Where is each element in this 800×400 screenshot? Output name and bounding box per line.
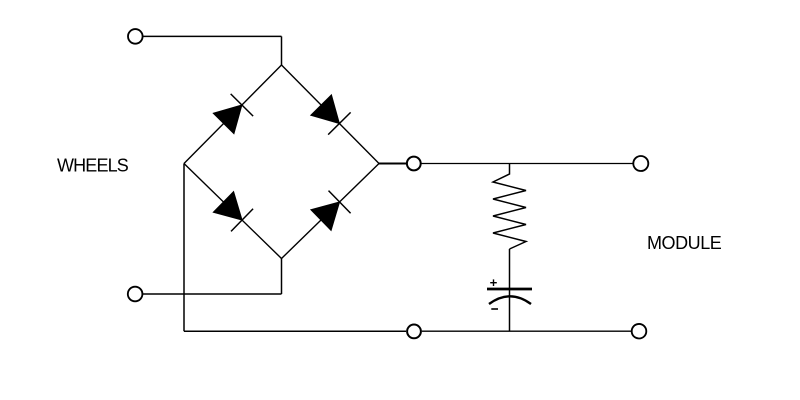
wire bridge edge bottom-left	[184, 164, 282, 259]
wire bridge edge top-left	[184, 65, 282, 164]
diode D4 bottom-right arm	[310, 191, 351, 232]
diode D3 bottom-left arm	[212, 191, 253, 232]
svg-text:MODULE: MODULE	[647, 233, 722, 253]
wire bridge edge top-right	[282, 65, 380, 164]
wire resistor to capacitor and down to rail	[509, 249, 511, 331]
capacitor C1 curved plate	[489, 296, 531, 304]
svg-text:WHEELS: WHEELS	[57, 156, 129, 176]
wire bottom rail right	[422, 330, 631, 332]
wire top input vertical drop	[281, 36, 283, 65]
wire bottom input horizontal	[143, 293, 282, 295]
wire bridge edge bottom-right	[282, 164, 380, 259]
terminal circle bottom-right	[632, 324, 647, 339]
terminal circle top-right	[633, 156, 648, 171]
wire top input horizontal	[144, 35, 282, 37]
diode D1 top-left arm	[212, 94, 253, 135]
node circle bridge output	[407, 157, 421, 171]
capacitor C1 plus sign	[490, 279, 497, 286]
capacitor C1 top plate	[487, 288, 532, 291]
wire bridge output stub to node	[379, 163, 406, 165]
terminal circle top-left	[128, 29, 143, 44]
wire bottom rail left	[184, 330, 406, 332]
wire node to right terminal	[422, 163, 633, 165]
wire bottom input vertical rise	[281, 259, 283, 295]
node circle bottom rail	[407, 325, 421, 339]
wire left vertex down	[183, 164, 185, 332]
resistor R1	[493, 164, 526, 250]
diode D2 top-right arm	[310, 94, 351, 135]
capacitor C1 minus sign	[491, 308, 498, 310]
terminal circle bottom-left	[128, 287, 143, 302]
